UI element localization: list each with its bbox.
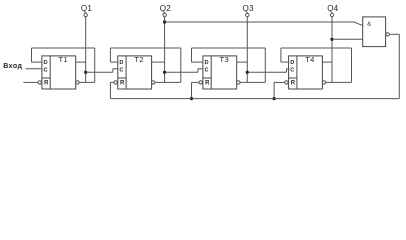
output terminal Q4 bbox=[330, 13, 333, 16]
D feedback wire (down segment) T4 bbox=[280, 48, 282, 62]
carry wire jog up T3 bbox=[197, 69, 199, 73]
R drop wire T3 bbox=[191, 82, 193, 98]
output terminal Q3 bbox=[246, 13, 249, 16]
D input wire T4 bbox=[281, 61, 289, 63]
feedback top wire T2 bbox=[110, 47, 180, 49]
carry wire Q3 to C of T4 bbox=[247, 71, 286, 73]
junction dot on Q2 vertical bbox=[163, 71, 166, 74]
junction dot R bus at T4 bbox=[273, 97, 276, 100]
flip-flop T1 body bbox=[42, 56, 76, 89]
inverse output circle of T2 bbox=[152, 81, 155, 84]
D input wire T2 bbox=[110, 61, 117, 63]
svg-text:C: C bbox=[290, 67, 294, 73]
NAND gate U1 bbox=[363, 17, 386, 47]
svg-text:D: D bbox=[290, 60, 294, 66]
C input wire T2 bbox=[113, 68, 118, 70]
Q output wire T4 bbox=[322, 61, 332, 63]
inverse output wire T1 bbox=[79, 81, 95, 83]
svg-text:&: & bbox=[367, 22, 371, 28]
svg-text:Q4: Q4 bbox=[327, 4, 338, 13]
gate input B wire from Q4 bbox=[332, 38, 363, 40]
Q2 vertical wire bbox=[164, 17, 166, 83]
wire Q2 to gate input A bbox=[165, 21, 354, 23]
feedback up wire from inverse output T2 bbox=[180, 48, 182, 82]
svg-text:Q1: Q1 bbox=[81, 4, 92, 13]
inverse output wire T4 bbox=[326, 81, 352, 83]
svg-text:Вход: Вход bbox=[3, 63, 22, 70]
Q output wire T1 bbox=[76, 61, 86, 63]
svg-text:D: D bbox=[44, 60, 48, 66]
D feedback wire (down segment) T1 bbox=[31, 48, 33, 62]
R input wire T3 bbox=[192, 81, 200, 83]
carry wire Q1 to C of T2 bbox=[86, 71, 113, 73]
inverse output circle of T3 bbox=[237, 81, 240, 84]
R drop wire T4 bbox=[273, 82, 275, 98]
svg-text:T3: T3 bbox=[220, 55, 229, 64]
carry wire jog up T4 bbox=[286, 69, 288, 73]
flip-flop T2 body bbox=[118, 56, 152, 89]
D feedback wire (down segment) T3 bbox=[191, 48, 193, 62]
C input wire T3 bbox=[198, 68, 203, 70]
svg-text:T1: T1 bbox=[59, 55, 68, 64]
Q output wire T2 bbox=[152, 61, 165, 63]
R input wire T4 bbox=[274, 81, 285, 83]
Q output wire T3 bbox=[237, 61, 248, 63]
junction dot R bus at T3 bbox=[190, 97, 193, 100]
inverse output wire T3 bbox=[240, 81, 265, 83]
feedback up wire from inverse output T3 bbox=[264, 48, 266, 82]
svg-text:C: C bbox=[205, 67, 209, 73]
D input wire T3 bbox=[192, 61, 203, 63]
flip-flop T3 body bbox=[203, 56, 237, 89]
inversion circle on R input of T4 bbox=[285, 81, 288, 84]
carry wire Q2 to C of T3 bbox=[165, 71, 198, 73]
svg-text:C: C bbox=[119, 67, 123, 73]
svg-text:D: D bbox=[119, 60, 123, 66]
inversion circle on gate output bbox=[386, 33, 389, 36]
svg-text:Q2: Q2 bbox=[160, 4, 171, 13]
Q3 vertical wire bbox=[246, 17, 248, 83]
svg-text:R: R bbox=[291, 80, 296, 86]
wire Q2 to gate input A (end segment) bbox=[354, 22, 363, 26]
feedback top wire T3 bbox=[192, 47, 266, 49]
feedback top wire T4 bbox=[281, 47, 352, 49]
inverse output wire T2 bbox=[155, 81, 181, 83]
junction dot on Q2 vertical for gate input bbox=[163, 20, 166, 23]
svg-text:Q3: Q3 bbox=[242, 4, 253, 13]
inversion circle on R input of T3 bbox=[199, 81, 202, 84]
output terminal Q1 bbox=[84, 13, 87, 16]
svg-text:R: R bbox=[120, 80, 125, 86]
feedback top wire T1 bbox=[32, 47, 95, 49]
inversion circle on R input of T2 bbox=[114, 81, 117, 84]
feedback up wire from inverse output T4 bbox=[351, 48, 353, 82]
inversion circle on R input of T1 bbox=[38, 81, 41, 84]
gate output wire bbox=[390, 33, 400, 35]
inverse output circle of T1 bbox=[76, 81, 79, 84]
R stub wire of T1 bbox=[23, 81, 38, 83]
svg-text:C: C bbox=[44, 67, 48, 73]
junction dot on Q1 vertical bbox=[84, 71, 87, 74]
junction dot on Q4 vertical for gate input bbox=[330, 38, 333, 41]
Q4 vertical wire bbox=[331, 17, 333, 83]
output terminal Q2 bbox=[163, 13, 166, 16]
junction dot on Q3 vertical bbox=[246, 71, 249, 74]
gate output down wire bbox=[398, 34, 400, 98]
D input wire T1 bbox=[32, 61, 42, 63]
reset bus wire bbox=[110, 98, 399, 100]
D feedback wire (down segment) T2 bbox=[109, 48, 111, 62]
inverse output circle of T4 bbox=[322, 81, 325, 84]
svg-text:T2: T2 bbox=[134, 55, 143, 64]
svg-text:D: D bbox=[205, 60, 209, 66]
R drop wire T2 bbox=[109, 82, 111, 98]
R input wire T2 bbox=[110, 81, 114, 83]
Q1 vertical wire bbox=[85, 17, 87, 83]
flip-flop T4 body bbox=[289, 56, 323, 89]
carry wire jog up T2 bbox=[112, 69, 114, 73]
svg-text:R: R bbox=[44, 80, 49, 86]
input wire to C of T1 bbox=[26, 68, 42, 70]
svg-text:R: R bbox=[205, 80, 210, 86]
feedback up wire from inverse output T1 bbox=[94, 48, 96, 82]
svg-text:T4: T4 bbox=[305, 55, 314, 64]
C input wire T4 bbox=[287, 68, 289, 70]
